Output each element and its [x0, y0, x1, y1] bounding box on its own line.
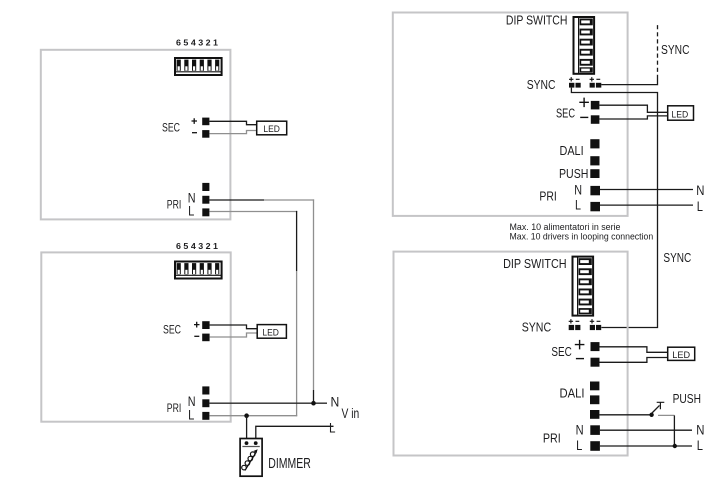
- DIP switch SW-A (horizontal, 6-position): [175, 58, 222, 75]
- svg-text:L: L: [575, 197, 581, 213]
- svg-text:Max. 10 drivers in looping con: Max. 10 drivers in looping connection: [510, 231, 654, 241]
- driver C enclosure (top-right box): [393, 13, 628, 216]
- wire L driver A vertical lower (gray): [296, 271, 298, 416]
- terminal L (driver D): [590, 441, 600, 451]
- push-button switch blade: [652, 405, 660, 413]
- svg-text:L: L: [329, 419, 336, 435]
- svg-text:6 5 4 3 2 1: 6 5 4 3 2 1: [176, 241, 218, 251]
- svg-text:N: N: [696, 422, 704, 438]
- junction dot L to push switch: [673, 444, 677, 448]
- svg-text:DIP SWITCH: DIP SWITCH: [506, 13, 568, 28]
- sync pair 2 signs (driver C): [590, 77, 601, 81]
- plus sign SEC+ (driver B): [194, 322, 200, 328]
- wire dimmer left pin: [246, 416, 248, 443]
- driver B enclosure (bottom-left box): [41, 252, 230, 421]
- minus sign SEC- (driver D): [576, 358, 584, 360]
- svg-text:SYNC: SYNC: [527, 77, 556, 92]
- svg-text:PUSH: PUSH: [559, 166, 588, 181]
- terminal DALI 2 (driver D): [590, 395, 599, 404]
- svg-text:SYNC: SYNC: [661, 42, 690, 57]
- terminal L (driver A): [202, 208, 209, 216]
- svg-text:N: N: [576, 421, 584, 437]
- sync pair 1 signs (driver D): [569, 319, 580, 323]
- svg-text:PRI: PRI: [539, 189, 556, 204]
- svg-text:L: L: [188, 203, 194, 219]
- wire N bus driver B to V in: [209, 402, 327, 404]
- wire L (driver C): [600, 204, 693, 206]
- sync pair 1 terminals (driver C): [569, 83, 574, 88]
- wire SEC+ to LED4: [600, 347, 668, 353]
- svg-text:SYNC: SYNC: [522, 319, 551, 334]
- LED load LED3: [668, 106, 694, 120]
- svg-text:6 5 4 3 2 1: 6 5 4 3 2 1: [176, 38, 218, 48]
- wire switch to L: [673, 415, 675, 446]
- terminal SEC+ (driver C): [591, 101, 600, 110]
- terminal aux (driver A): [202, 183, 209, 191]
- DIP switch SW-B (horizontal, 6-position): [175, 262, 222, 279]
- wire L (driver D): [600, 445, 692, 447]
- wire sync dashed continuation up: [657, 23, 659, 79]
- terminal L (driver B): [202, 412, 209, 420]
- terminal N (driver C): [590, 186, 600, 195]
- svg-text:LED: LED: [671, 110, 688, 121]
- terminal SEC- (driver C): [591, 115, 600, 124]
- svg-text:N: N: [574, 182, 582, 198]
- svg-text:L: L: [576, 437, 582, 453]
- wire N driver A vertical down to N bus (gray): [313, 199, 315, 390]
- svg-text:PRI: PRI: [543, 430, 561, 445]
- plus sign SEC+ (driver C): [579, 98, 589, 108]
- terminal DALI 1 (driver C): [590, 139, 599, 148]
- wire PUSH terminal to switch: [599, 414, 650, 416]
- minus sign SEC- (driver C): [580, 116, 588, 118]
- terminal N (driver D): [590, 425, 600, 435]
- svg-text:LED: LED: [263, 124, 280, 135]
- terminal SEC+ (driver D): [591, 342, 600, 351]
- sync pair 2 terminals (driver D): [590, 325, 595, 330]
- svg-text:DIMMER: DIMMER: [268, 456, 311, 472]
- svg-text:SEC: SEC: [551, 344, 571, 359]
- wire N (driver D): [600, 429, 692, 431]
- junction dot N bus: [311, 401, 316, 406]
- svg-text:SEC: SEC: [163, 324, 181, 336]
- terminal PUSH (driver D): [590, 410, 599, 419]
- wire N (driver C): [600, 189, 693, 191]
- svg-text:N: N: [331, 393, 340, 409]
- driver A enclosure (top-left box): [41, 50, 231, 220]
- svg-text:SEC: SEC: [556, 105, 575, 120]
- DIP switch SW-D (vertical, 6-position): [573, 257, 594, 316]
- wire L supply to dimmer right pin: [256, 426, 334, 443]
- svg-text:PRI: PRI: [167, 200, 182, 212]
- terminal SEC+ (driver A): [202, 118, 209, 126]
- terminal aux (driver B): [202, 386, 209, 394]
- terminal SEC- (driver D): [591, 358, 600, 367]
- svg-text:L: L: [188, 406, 194, 422]
- terminal DALI 1 (driver D): [590, 382, 599, 391]
- terminal DALI 2 (driver C): [590, 156, 599, 165]
- sync pair 1 terminals (driver D): [569, 325, 574, 330]
- svg-text:SEC: SEC: [162, 123, 180, 135]
- wire SEC+ to LED1: [209, 121, 256, 124]
- wire N driver A vertical lower part (black): [313, 390, 315, 403]
- svg-text:DALI: DALI: [560, 143, 584, 158]
- minus sign SEC- (driver B): [194, 335, 199, 337]
- terminal SEC- (driver B): [202, 334, 209, 342]
- LED load LED1: [257, 121, 287, 135]
- wire sync down (driver C pair1 to driver D): [571, 88, 657, 328]
- sync pair 2 terminals (driver C): [590, 83, 595, 88]
- minus sign SEC- (driver A): [192, 132, 197, 134]
- LED load LED2: [257, 325, 286, 339]
- wire N driver A horizontal (gray part): [264, 199, 314, 201]
- svg-text:LED: LED: [262, 328, 279, 339]
- svg-text:PUSH: PUSH: [673, 391, 701, 406]
- dimmer pin dot right: [254, 441, 258, 445]
- dimmer DM1 box: [240, 439, 262, 477]
- wire N driver A horizontal (black part): [209, 199, 264, 201]
- sync pair 2 signs (driver D): [590, 319, 601, 323]
- sync pair 1 signs (driver C): [569, 77, 580, 81]
- svg-text:L: L: [697, 198, 703, 214]
- svg-text:N: N: [696, 182, 704, 198]
- plus sign SEC+ (driver A): [192, 118, 198, 124]
- push-button fixed contact (gray): [658, 414, 674, 416]
- junction dot push switch pivot: [649, 413, 653, 417]
- wire sync up (driver C to previous unit): [601, 79, 657, 85]
- terminal L (driver C): [590, 202, 600, 211]
- svg-text:SYNC: SYNC: [663, 250, 691, 265]
- dimmer phase-cut symbol (arrow with coil squiggle): [242, 449, 258, 470]
- wire SEC- to LED3: [599, 116, 667, 119]
- svg-text:LED: LED: [672, 350, 690, 361]
- terminal PUSH (driver C): [590, 169, 599, 178]
- wire SEC+ to LED2: [210, 325, 258, 329]
- wire SEC- to LED4: [600, 358, 668, 363]
- wire L driver A horizontal (gray): [209, 211, 297, 213]
- junction dot L to dimmer: [244, 413, 249, 418]
- terminal SEC- (driver A): [202, 130, 209, 138]
- svg-text:L: L: [697, 437, 703, 453]
- wire L driver A vertical upper (black): [296, 211, 298, 271]
- driver D enclosure (bottom-right box): [394, 252, 628, 456]
- plus sign SEC+ (driver D): [575, 340, 585, 350]
- svg-text:V in: V in: [342, 405, 360, 421]
- wire SEC- to LED1 (gray): [209, 131, 256, 134]
- dimmer internal divider: [242, 446, 259, 448]
- wire SEC+ to LED3: [599, 105, 667, 112]
- wire SEC- to LED2 (gray): [210, 333, 258, 337]
- svg-text:PRI: PRI: [167, 403, 182, 415]
- svg-text:DIP SWITCH: DIP SWITCH: [503, 256, 566, 271]
- DIP switch SW-C (vertical, 6-position): [574, 17, 595, 74]
- terminal N (driver B): [202, 399, 209, 407]
- dimmer pin dot left: [245, 441, 249, 445]
- terminal N (driver A): [202, 196, 209, 204]
- svg-text:DALI: DALI: [560, 385, 585, 400]
- wire L driver B horizontal (gray): [209, 415, 297, 417]
- terminal SEC+ (driver B): [202, 321, 209, 329]
- LED load LED4: [668, 347, 695, 360]
- push-button actuator T: [657, 402, 665, 409]
